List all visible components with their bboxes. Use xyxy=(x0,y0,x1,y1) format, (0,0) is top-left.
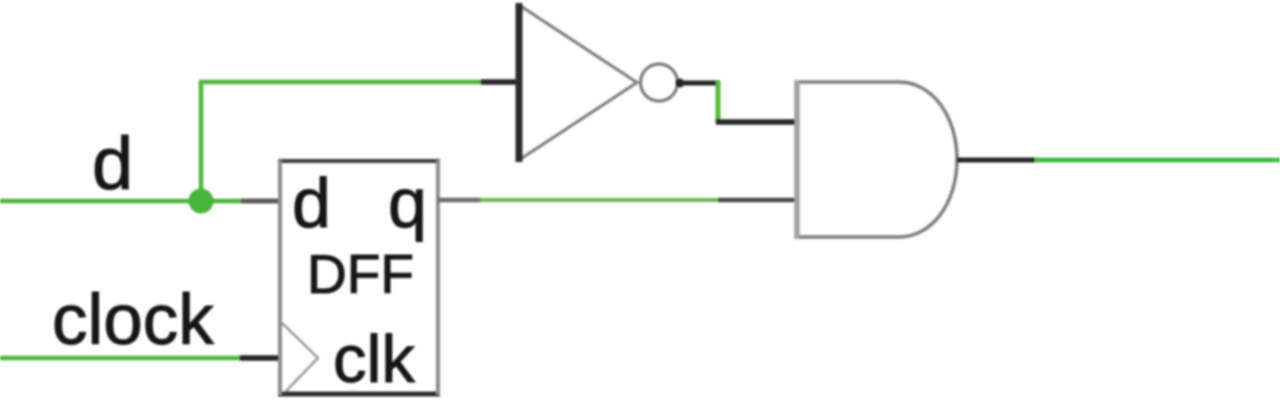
wire d stub to DFF (gray) xyxy=(241,199,281,204)
wire AND top input (dark) xyxy=(716,119,798,125)
AND gate U2 xyxy=(797,80,957,239)
wire branch vertical up from junction xyxy=(199,80,204,202)
svg-text:d: d xyxy=(292,164,331,242)
svg-text:clock: clock xyxy=(52,281,214,360)
NOT gate input edge (thick dark) xyxy=(516,3,523,162)
svg-text:d: d xyxy=(92,122,133,205)
DFF clock wedge xyxy=(282,323,318,391)
wire inverter input stub (dark) xyxy=(481,79,521,85)
wire output (green) xyxy=(1034,158,1280,163)
wire clock (green) xyxy=(0,356,242,361)
svg-text:DFF: DFF xyxy=(307,243,414,305)
wire branch top horizontal to inverter xyxy=(199,80,483,85)
wire AND output stub (dark) xyxy=(957,158,1036,163)
wire jog vertical (green) xyxy=(716,81,721,124)
wire AND bottom input stub (dark gray) xyxy=(718,198,798,203)
wire q to AND gate (green) xyxy=(480,198,720,202)
svg-text:q: q xyxy=(388,164,427,242)
node d junction xyxy=(189,189,214,214)
node bubble output dot xyxy=(676,79,685,88)
NOT gate bubble xyxy=(641,64,678,101)
NOT gate triangle U1 xyxy=(519,5,637,160)
wire from bubble (dark) xyxy=(680,81,720,86)
wire clk stub (dark) xyxy=(240,355,281,361)
svg-text:clk: clk xyxy=(333,322,415,397)
wire d input (left horizontal green) xyxy=(0,199,243,204)
wire q output stub (gray) xyxy=(438,198,482,203)
flip-flop DFF box xyxy=(278,160,440,395)
